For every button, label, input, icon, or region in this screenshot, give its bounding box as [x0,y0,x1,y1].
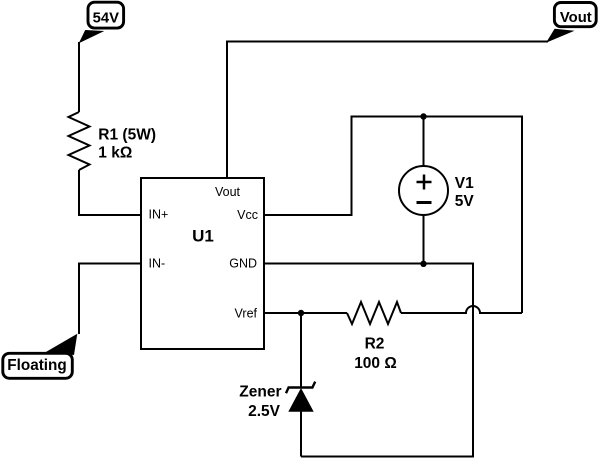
svg-text:54V: 54V [93,11,119,27]
svg-text:Vcc: Vcc [237,208,258,222]
svg-text:R2: R2 [365,336,385,353]
svg-text:V1: V1 [455,175,474,192]
svg-text:5V: 5V [455,193,475,210]
svg-text:IN+: IN+ [149,208,169,222]
svg-text:R1 (5W): R1 (5W) [98,127,156,144]
svg-text:IN-: IN- [149,257,166,271]
svg-text:Vout: Vout [215,185,241,199]
svg-text:100 Ω: 100 Ω [354,355,397,372]
svg-text:Vout: Vout [560,10,592,26]
svg-text:Zener: Zener [239,384,281,401]
svg-text:U1: U1 [192,227,214,246]
svg-text:Vref: Vref [235,307,258,321]
svg-text:1 kΩ: 1 kΩ [98,145,132,162]
svg-text:Floating: Floating [7,357,66,374]
svg-text:GND: GND [229,257,257,271]
svg-text:2.5V: 2.5V [248,403,281,420]
